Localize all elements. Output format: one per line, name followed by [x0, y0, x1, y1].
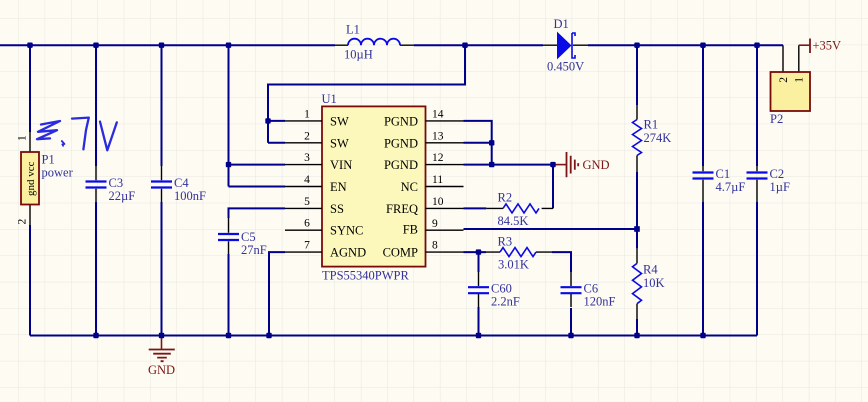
svg-text:NC: NC [401, 180, 418, 194]
svg-text:274K: 274K [644, 131, 672, 145]
wire C3 vertical [95, 45, 97, 335]
svg-text:PGND: PGND [384, 114, 418, 128]
svg-text:U1: U1 [322, 92, 337, 106]
svg-text:10K: 10K [643, 276, 665, 290]
wire C4 vertical [161, 45, 163, 335]
diode D1 [543, 17, 588, 74]
inductor L1 [335, 23, 414, 62]
svg-text:VIN: VIN [330, 158, 352, 172]
svg-text:C5: C5 [241, 230, 256, 244]
ground GND (earth, bottom rail) [148, 336, 175, 378]
wire PGND tie (pins 14,13,12) [464, 121, 553, 165]
wire COMP to R3 [464, 251, 487, 253]
svg-text:4.7µF: 4.7µF [716, 180, 746, 194]
svg-text:D1: D1 [554, 17, 569, 31]
svg-text:6: 6 [304, 218, 310, 230]
resistor R4 [633, 248, 665, 318]
svg-text:7: 7 [304, 240, 310, 252]
U1 pin names right [383, 114, 418, 259]
wire FB node [464, 228, 638, 230]
wire SS to C5 [229, 208, 286, 335]
svg-text:2: 2 [778, 77, 790, 83]
U1 pin stubs right [426, 121, 464, 252]
U1 pin names left [330, 114, 366, 259]
svg-text:R2: R2 [498, 191, 513, 205]
wire C2 vertical [756, 45, 758, 335]
wire R1 chain vertical [636, 45, 638, 229]
svg-text:C6: C6 [584, 282, 599, 296]
svg-text:4: 4 [304, 174, 310, 186]
U1 pin stubs left [285, 121, 322, 252]
resistor R3 [486, 235, 552, 272]
svg-text:22µF: 22µF [109, 189, 136, 203]
svg-text:27nF: 27nF [241, 243, 267, 257]
wire R4 chain vertical [636, 229, 638, 336]
connector P1 [17, 132, 74, 225]
svg-text:SW: SW [330, 136, 349, 150]
svg-text:1: 1 [794, 77, 806, 83]
resistor R2 [486, 191, 553, 229]
capacitor C60 [468, 272, 520, 309]
capacitor C1 [693, 166, 746, 202]
svg-text:P2: P2 [770, 112, 783, 126]
svg-text:SS: SS [330, 202, 344, 216]
svg-text:2: 2 [304, 130, 310, 142]
wire AGND down [269, 252, 285, 335]
svg-text:AGND: AGND [330, 246, 366, 260]
wire bottom rail [30, 335, 757, 337]
wire P1 vcc vertical [29, 45, 31, 132]
svg-text:C3: C3 [109, 176, 124, 190]
U1 pin numbers left [304, 108, 310, 251]
wire top rail mid (L1 to D1) [414, 44, 543, 46]
capacitor C2 [747, 166, 790, 202]
svg-text:GND: GND [148, 363, 175, 377]
svg-text:+35V: +35V [813, 39, 842, 53]
wire R3 to C6 [552, 252, 571, 335]
capacitor C5 [218, 218, 267, 257]
svg-text:P1: P1 [42, 153, 55, 167]
svg-text:SW: SW [330, 114, 349, 128]
wire C1 vertical [702, 45, 704, 335]
svg-text:C60: C60 [491, 282, 512, 296]
svg-text:5: 5 [304, 196, 310, 208]
svg-text:FREQ: FREQ [386, 202, 418, 216]
svg-text:11: 11 [432, 174, 443, 186]
wire GND junction down to R2 [552, 165, 554, 209]
svg-text:gnd vcc: gnd vcc [25, 161, 37, 196]
wire top rail right (D1 to P2) [588, 44, 783, 46]
svg-text:L1: L1 [346, 23, 360, 37]
svg-text:8: 8 [432, 240, 438, 252]
svg-text:10: 10 [432, 196, 444, 208]
U1 pin numbers right [432, 108, 444, 251]
svg-text:9: 9 [432, 218, 438, 230]
svg-text:1: 1 [17, 135, 29, 141]
svg-text:C1: C1 [716, 167, 731, 181]
svg-text:2.2nF: 2.2nF [491, 295, 520, 309]
svg-text:R3: R3 [498, 235, 513, 249]
wire SW tie to top rail [268, 45, 465, 143]
svg-text:GND: GND [583, 158, 610, 172]
capacitor C6 [561, 272, 616, 309]
svg-text:14: 14 [432, 108, 444, 120]
svg-text:3: 3 [304, 152, 310, 164]
svg-text:TPS55340PWPR: TPS55340PWPR [322, 269, 409, 283]
wire C60 vertical [478, 252, 480, 335]
wire top rail left [0, 44, 335, 46]
svg-text:C4: C4 [174, 176, 189, 190]
svg-text:120nF: 120nF [584, 295, 616, 309]
svg-text:power: power [42, 166, 74, 180]
wire FREQ to R2 [464, 207, 487, 209]
svg-text:1µF: 1µF [770, 180, 790, 194]
connector P2 [770, 45, 810, 126]
power port +35V [799, 39, 841, 54]
handwritten 3.7V annotation [37, 118, 117, 151]
svg-text:0.450V: 0.450V [547, 60, 584, 74]
svg-text:R4: R4 [643, 263, 658, 277]
svg-text:PGND: PGND [384, 136, 418, 150]
svg-text:EN: EN [330, 180, 347, 194]
svg-text:FB: FB [403, 223, 418, 237]
svg-text:PGND: PGND [384, 158, 418, 172]
svg-text:R1: R1 [644, 118, 659, 132]
svg-text:3.01K: 3.01K [498, 258, 529, 272]
svg-text:COMP: COMP [383, 246, 418, 260]
svg-text:10µH: 10µH [344, 48, 373, 62]
svg-text:SYNC: SYNC [330, 224, 363, 238]
svg-text:100nF: 100nF [174, 189, 206, 203]
svg-text:2: 2 [17, 219, 29, 225]
svg-text:84.5K: 84.5K [498, 214, 529, 228]
capacitor C3 [86, 166, 136, 203]
svg-text:13: 13 [432, 130, 444, 142]
wire P1 gnd vertical [29, 225, 31, 336]
svg-text:1: 1 [304, 108, 310, 120]
svg-text:C2: C2 [770, 167, 785, 181]
capacitor C4 [151, 166, 206, 203]
wire VIN/EN vertical [229, 45, 286, 186]
svg-text:12: 12 [432, 152, 444, 164]
resistor R1 [633, 105, 672, 172]
op IC U1 body [322, 92, 426, 283]
power port GND (bars, at pin 12 net) [553, 152, 610, 177]
